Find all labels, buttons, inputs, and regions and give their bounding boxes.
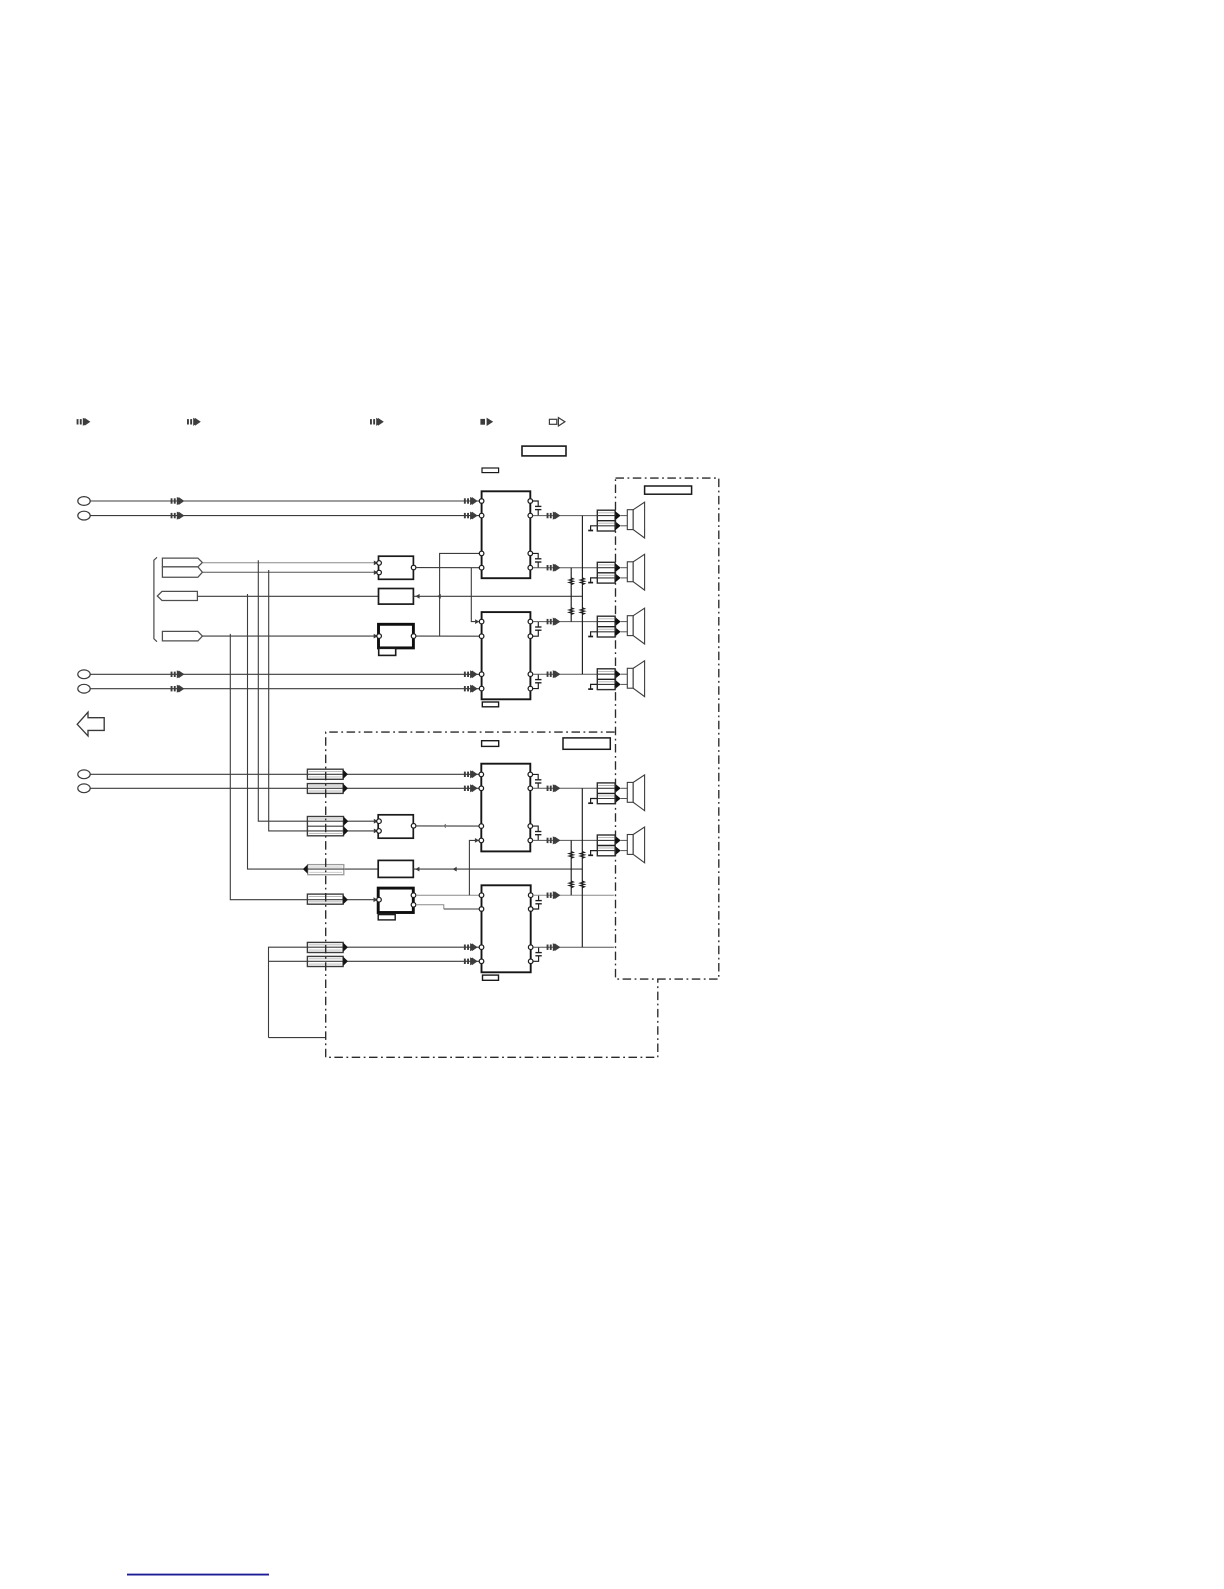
power amp IC4 — [482, 885, 531, 972]
resistor R1 — [569, 578, 573, 585]
arrowhead into B2 right side — [415, 594, 419, 599]
connector tag CN4 (to box B3) — [162, 631, 202, 641]
cable connector P5b (to IC4 pin4) — [307, 956, 348, 966]
wire: B1 output to IC1 pin4 — [416, 567, 480, 569]
wire: IC1 output 2 to speaker SP2 — [533, 567, 616, 569]
wire: IC4 output 2 (ends at unit boundary) — [533, 946, 614, 948]
signal arrow on SP6 line — [547, 836, 560, 844]
B6 output pin top — [411, 893, 416, 898]
IC3 pin 1 — [479, 772, 484, 777]
speaker terminal block SP6 — [597, 835, 627, 856]
IC4 pin 7 — [528, 945, 533, 950]
page-flow back arrow (outline) — [77, 712, 104, 736]
arrowhead into IC2 pin1 — [475, 619, 479, 624]
speaker SP2 — [627, 554, 644, 590]
speaker SP5 — [627, 775, 644, 811]
lower amplifier unit boundary (dash-dot) — [326, 732, 658, 1057]
title label box (top) — [522, 446, 566, 456]
signal arrow into IC4 pin3 — [464, 943, 477, 951]
signal arrow on SP4 line — [547, 670, 560, 678]
capacitor C3 (IC2 out pair 1) — [537, 622, 539, 627]
wire: CN4 to box B3 pin — [202, 635, 375, 637]
cable connector P4 (bus D to B6) — [307, 894, 348, 904]
speaker SP1 ground return lead — [591, 526, 598, 531]
IC1 pin 1 — [479, 499, 484, 504]
speaker terminal block SP2 — [597, 562, 627, 583]
wire: input R ch to IC1 pin2 — [90, 515, 479, 517]
power amp IC3 — [481, 764, 530, 852]
speaker unit label box — [645, 486, 692, 494]
wire: B6 top output to IC4 pin1 — [416, 894, 479, 896]
wire: enclosure link to IC4 pin4 input row — [269, 960, 480, 962]
wire: B1 output branch down to IC2 pin1 — [471, 568, 475, 622]
input jack J2 (R) — [78, 511, 90, 520]
input jack J5 — [78, 770, 90, 779]
IC2 pin 5 — [528, 619, 533, 624]
resistor R7 — [580, 852, 584, 859]
legend symbol: power amp signal arrow — [480, 418, 493, 426]
IC1 pin 2 — [479, 513, 484, 518]
lower unit label box — [563, 738, 610, 749]
wire: input to IC3 pin2 — [90, 787, 479, 789]
B1 output pin — [411, 565, 416, 570]
arrowhead into B4 pin1 — [374, 819, 378, 824]
box B2 (feedback network) — [379, 589, 414, 605]
B3 input pin — [377, 634, 382, 639]
bus wire V-B (CN2 signal down to lower section) — [269, 570, 378, 831]
IC1 pin 7 — [528, 551, 533, 556]
signal arrow on J3 wire — [171, 670, 184, 678]
B1 pin2 — [377, 570, 382, 575]
lower unit small label box — [482, 741, 499, 747]
arrowhead into B6 pin — [374, 897, 378, 902]
signal arrow on J2 wire — [171, 512, 184, 520]
signal arrow into IC3 pin2 — [464, 784, 477, 792]
wire: B4 output to IC3 pin3 — [416, 825, 479, 827]
wire: input L ch to IC1 pin1 — [90, 500, 479, 502]
divider bus wire V1 (IC1 out2 to IC2 out1) — [570, 568, 572, 622]
IC4 pin 5 — [528, 893, 533, 898]
wire: B3 output to IC2 pin2 — [416, 635, 480, 637]
wire: IC3 output 1 to speaker SP5 — [533, 787, 616, 789]
signal arrow on SP2 line — [547, 564, 560, 572]
signal arrow into IC3 pin1 — [464, 770, 477, 778]
IC2 pin 2 — [479, 634, 484, 639]
wire: feedback node to B2 — [413, 595, 582, 597]
wire: IC4 output 1 (ends at unit boundary) — [533, 894, 614, 896]
box B3 (phase/EQ, thick border) — [379, 624, 414, 648]
wire: input to IC2 pin3 — [90, 673, 479, 675]
IC4 pin 4 — [479, 959, 484, 964]
resistor R2 — [569, 608, 573, 615]
speaker SP4 — [627, 661, 644, 697]
speaker terminal block SP1 — [597, 510, 627, 531]
resistor R8 — [580, 881, 584, 888]
input jack J1 (L) — [78, 497, 90, 506]
IC4 pin 1 — [479, 893, 484, 898]
box B5 (feedback network, lower) — [378, 860, 413, 877]
IC1 pin 4 — [479, 565, 484, 570]
IC2 pin 8 — [528, 686, 533, 691]
IC1 pin 6 — [528, 513, 533, 518]
legend symbol: speaker line arrow (outline) — [549, 418, 565, 426]
signal arrow on J4 wire — [171, 685, 184, 693]
IC3 pin 4 — [479, 838, 484, 843]
cable connector P1b (input to IC3 pin2) — [307, 784, 348, 794]
IC3 pin 8 — [528, 838, 533, 843]
label box under IC2 — [482, 702, 498, 707]
speaker SP3 ground return lead — [591, 632, 598, 637]
speaker SP5 ground return lead — [591, 799, 598, 804]
capacitor C6 (IC3 out pair 2) — [533, 826, 539, 831]
arrowhead into IC3 pin4 — [475, 838, 479, 843]
legend symbol: aux signal arrow — [370, 418, 383, 426]
B6 output pin bottom — [411, 903, 416, 908]
IC3 pin 2 — [479, 786, 484, 791]
arrowhead into B1 pin1 — [374, 561, 378, 566]
arrowhead into B3 pin — [374, 634, 378, 639]
footer link underline (blue) — [127, 1574, 269, 1576]
box B6 (phase/EQ lower, thick border) — [378, 888, 413, 912]
IC4 pin 6 — [528, 907, 533, 912]
wire: input to IC3 pin1 — [90, 773, 479, 775]
B1 pin1 — [377, 561, 382, 566]
legend symbol: source signal arrow — [77, 418, 90, 426]
small arrow on B4 output wire — [443, 824, 446, 828]
power amp IC1 — [482, 491, 531, 578]
signal arrow into IC2 pin4 — [464, 685, 477, 693]
signal arrow on SP3 line — [547, 618, 560, 626]
wire: loop to lower unit boundary — [269, 1037, 326, 1039]
capacitor C1 (IC1 out pair 1) — [533, 501, 539, 506]
IC2 pin 7 — [528, 672, 533, 677]
wire: CN1 to box B1 pin1 — [202, 562, 377, 564]
speaker terminal block SP4 — [597, 669, 627, 690]
divider bus wire V2 (IC1 out1 to IC2 out2) — [581, 516, 583, 675]
signal arrow into IC4 pin4 — [464, 957, 477, 965]
signal arrow into IC2 pin3 — [464, 670, 477, 678]
IC3 pin 5 — [528, 772, 533, 777]
speaker SP1 — [627, 502, 644, 538]
input jack J4 — [78, 684, 90, 693]
label box under B3 — [379, 648, 396, 655]
bus wire V-A (CN1 signal down to lower section) — [258, 560, 377, 821]
signal arrow into IC1 pin1 — [464, 497, 477, 505]
wire: branch up from B6 output to IC3 pin4 — [469, 840, 475, 895]
connector tag CN2 (to box B1 pin2) — [162, 567, 202, 577]
bus wire V-C (CN3 return from lower section) — [248, 594, 379, 869]
connector group bracket — [154, 557, 157, 641]
B6 input pin — [377, 897, 382, 902]
speaker unit boundary (dash-dot box) — [616, 478, 719, 979]
power amp IC2 — [482, 612, 531, 699]
connector tag CN1 (to box B1 pin1) — [162, 558, 202, 567]
B4 pin1 — [377, 819, 382, 824]
wire: enclosure link to IC4 pin3 input row — [269, 947, 480, 1037]
arrowhead into B5 right side — [415, 867, 419, 872]
resistor R4 — [580, 608, 584, 615]
wire: IC2 output 2 to speaker SP4 — [533, 673, 615, 675]
wire: IC2 output 1 to speaker SP3 — [533, 621, 615, 623]
IC1 pin 8 — [528, 565, 533, 570]
signal arrow on IC4 out2 — [547, 943, 560, 951]
speaker SP2 ground return lead — [591, 578, 598, 583]
wire: CN2 to box B1 pin2 — [202, 571, 377, 573]
input jack J6 — [78, 784, 90, 793]
wire: input to IC2 pin4 — [90, 688, 479, 690]
wire: IC3 output 2 to speaker SP6 — [533, 839, 616, 841]
IC4 pin 3 — [479, 945, 484, 950]
signal arrow on IC4 out1 — [547, 891, 560, 899]
label box under B6 — [378, 915, 395, 920]
signal arrow on SP1 line — [547, 512, 560, 520]
speaker SP6 ground return lead — [591, 851, 598, 856]
IC3 pin 3 — [479, 824, 484, 829]
label box under IC4 — [483, 975, 499, 980]
capacitor C4 (IC2 out pair 2) — [537, 674, 539, 679]
resistor R3 — [580, 578, 584, 585]
divider bus wire V4 (IC3 out1 to IC4 out2) — [581, 788, 583, 947]
arrowhead into B4 pin2 — [374, 829, 378, 834]
IC2 pin 6 — [528, 634, 533, 639]
wire: feedback node to B5 — [413, 868, 582, 870]
resistor R5 — [569, 852, 573, 859]
IC1 pin 3 — [479, 551, 484, 556]
IC4 pin 8 — [528, 959, 533, 964]
input jack J3 — [78, 670, 90, 679]
speaker terminal block SP5 — [597, 783, 627, 804]
capacitor C5 (IC3 out pair 1) — [533, 774, 539, 779]
IC3 pin 6 — [528, 786, 533, 791]
arrowhead mid feedback wire (top) — [437, 594, 441, 599]
IC3 pin 7 — [528, 824, 533, 829]
signal arrow into IC1 pin2 — [464, 512, 477, 520]
divider bus wire V3 (IC3 out2 to IC4 out1) — [570, 840, 572, 895]
legend symbol: tuner signal arrow — [187, 418, 200, 426]
cable connector P1a (input to IC3 pin1) — [307, 769, 348, 779]
B4 pin2 — [377, 829, 382, 834]
IC2 pin 3 — [479, 672, 484, 677]
arrowhead mid feedback wire (lower) — [453, 867, 457, 872]
wire: B6 bottom output to IC4 pin2 (with step) — [416, 905, 444, 909]
resistor R6 — [569, 881, 573, 888]
arrowhead into B1 pin2 — [374, 570, 378, 575]
wire: IC1 output 1 to speaker SP1 — [533, 515, 616, 517]
IC2 pin 1 — [479, 619, 484, 624]
wire: B3 output branch up to IC1 pin3 — [440, 553, 480, 636]
speaker SP3 — [627, 608, 644, 644]
wire: CN3 to box B2 (feedback return) — [197, 595, 378, 597]
box B1 (input selector) — [379, 556, 414, 579]
B4 output pin — [411, 824, 416, 829]
B3 output pin — [411, 634, 416, 639]
box B4 (input selector, lower) — [378, 815, 413, 838]
connector tag CN3 (output, points left) — [157, 591, 197, 600]
bus wire V-D (CN4 signal down to lower section) — [230, 634, 375, 900]
label box above IC1 — [482, 468, 499, 473]
capacitor C2 (IC1 out pair 2) — [533, 553, 539, 558]
IC4 pin 2 — [479, 907, 484, 912]
signal arrow on J1 wire — [171, 497, 184, 505]
cable connector P2 (bus A/B to B4) — [307, 817, 348, 836]
speaker SP6 — [627, 827, 644, 863]
speaker SP4 ground return lead — [591, 684, 598, 689]
cable connector P5a (to IC4 pin3) — [307, 942, 348, 952]
signal arrow on SP5 line — [547, 784, 560, 792]
IC1 pin 5 — [528, 499, 533, 504]
speaker terminal block SP3 — [597, 616, 627, 637]
capacitor C8 (IC4 out pair 2) — [538, 947, 540, 952]
capacitor C7 (IC4 out pair 1) — [538, 895, 540, 900]
IC2 pin 4 — [479, 686, 484, 691]
cable connector P3 (return to CN3) — [303, 864, 344, 874]
